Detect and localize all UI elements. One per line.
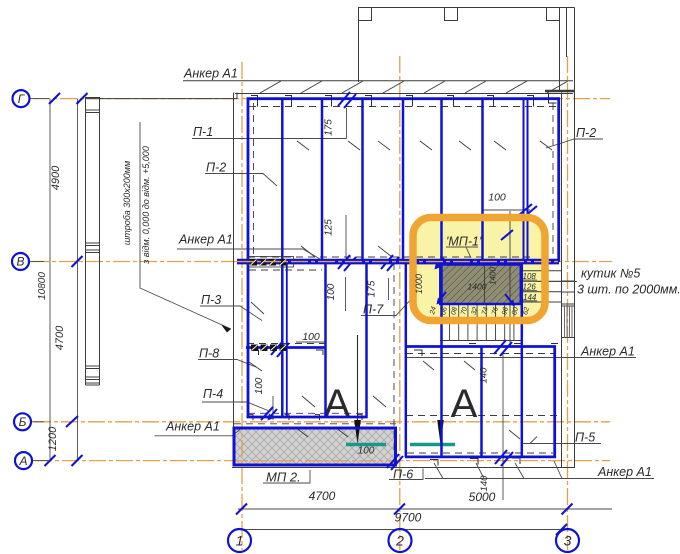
arrow top-left [436,258,444,267]
teal level mark left [346,443,386,446]
dim line 4900/4700/1200 [77,99,79,461]
svg-text:3: 3 [564,532,572,548]
P-2 underline + leader [205,174,277,187]
axis B horizontal [34,421,610,423]
circle B [14,413,31,430]
dashed below right-mid beam [406,353,555,355]
tick bottom dim line2 [556,524,567,535]
ext line right [502,352,504,500]
arrow B beam slash [269,409,277,418]
circle G [13,90,30,107]
joist 3 bottom [324,261,327,418]
arrow bottom-right [505,294,513,304]
axis 2 vertical [399,56,401,550]
left wall inner [99,98,101,386]
mid leader verticals [345,277,347,311]
right-mid beam [405,345,556,348]
MP2 slab fill [234,428,397,466]
highlight yellow fill [414,219,544,320]
anchor rb diag ticks [434,461,562,479]
svg-text:4900: 4900 [50,165,62,190]
svg-text:126: 126 [523,283,537,292]
svg-text:4700: 4700 [309,489,336,503]
B axis beam left [247,416,368,419]
anchor square symbols at mid-left beam [251,345,287,352]
dashed above MP2 [234,423,396,425]
svg-text:П-1: П-1 [193,125,213,139]
joist 8 double a [523,98,525,264]
joist 2 [281,98,284,418]
strip diagonal marks [260,81,568,93]
right wall inner face [561,93,563,468]
top beam G [247,97,561,100]
ticks bottom dim line1 [236,504,573,515]
wall junction thick [545,90,575,92]
svg-text:A: A [451,382,478,426]
terrace right wall lines [559,8,561,92]
svg-text:10800: 10800 [37,272,48,300]
dashed vertical corridor [393,263,395,455]
P-8 underline + leader [198,360,256,368]
V axis beam [237,259,559,265]
joist 6 stair left rail [440,98,443,457]
svg-text:Анкер А1: Анкер А1 [178,233,233,247]
P-2 right underline + leader [546,139,603,148]
P-6 box [389,469,423,480]
P-1 underline [192,138,347,140]
svg-text:9700: 9700 [395,511,422,525]
tick dim V line2 [72,256,83,267]
right edge beam bottom [553,346,556,459]
svg-text:1: 1 [236,532,244,548]
100 upper-right dim line [483,209,530,211]
section line left [357,335,359,420]
dim line 10800 [49,99,51,461]
dashed right section above bottom [406,415,558,417]
mid-left beam [246,346,326,349]
break slash MP2 corner [387,454,403,470]
100 mid underline [296,341,326,343]
shtroba shelf + leader [140,122,231,329]
svg-text:Б: Б [19,415,27,429]
break slash pairs V beam [338,255,399,271]
svg-text:Анкер А1: Анкер А1 [597,465,652,479]
break slash pair right-mid beam [494,340,512,356]
blue corner arrows at stair opening [268,258,516,421]
svg-text:175: 175 [367,280,378,297]
svg-text:100: 100 [358,446,375,457]
section arrow right [437,420,444,444]
hooks right-bottom beam [430,458,520,466]
circle V [12,253,29,270]
svg-text:П-3: П-3 [201,293,221,307]
dashed above V beam [248,256,530,258]
left wall outer [85,98,87,386]
stair number underlines [522,280,537,301]
tick dim B line2 [66,416,78,427]
kutik leader [537,281,577,283]
svg-text:2: 2 [395,532,404,548]
MP2 border [234,428,396,465]
hooks right-mid beam [414,344,558,357]
svg-text:Анкер А1: Анкер А1 [580,345,635,359]
dimension numbers [302,192,506,525]
joist 8 bottom [521,346,524,457]
bottom dim line 2 [238,529,570,531]
circle 1 [228,529,251,552]
125 leader vertical [345,215,347,259]
P-4 underline + leader [202,402,268,411]
corridor right wall beam [405,261,408,457]
left wall top cap [85,97,100,99]
break slash pair right-bottom beam [495,450,513,466]
svg-text:1400: 1400 [489,267,498,285]
circle 3 [556,529,579,552]
joist 3 top [321,98,324,261]
terrace tab right [547,8,560,21]
connector A circle [33,460,48,462]
joist 8 double b [527,98,529,261]
svg-text:100: 100 [302,331,320,343]
svg-text:144: 144 [523,293,537,302]
joist 5 corridor [402,98,405,261]
svg-text:1400: 1400 [468,282,487,292]
svg-text:кутик №5: кутик №5 [581,267,640,281]
stair opening border [440,265,521,305]
connector V circle [30,261,44,263]
right wall column detail [562,306,576,338]
joist 1 top [247,98,250,418]
P-5 leader [521,437,601,444]
dashed above right bottom beam [407,452,553,454]
anchor2 underline + leader [177,249,325,262]
svg-text:П-2: П-2 [206,161,226,175]
svg-text:П-7: П-7 [363,303,384,317]
terrace tab mid [445,8,458,21]
stair tread numbers rotated [429,306,531,316]
top wall strip lower line [235,93,573,95]
svg-text:МП 2.: МП 2. [266,470,301,485]
P-3 underline + leader [200,306,262,321]
svg-text:175: 175 [324,119,335,136]
top wall strip upper line / anchor leader [183,80,573,82]
dashed below top beam [249,106,558,108]
svg-text:1000: 1000 [414,274,424,294]
stair bottom rail [440,340,523,342]
hooks at top beam [251,93,557,107]
stair opening MP-1 fill [441,266,520,304]
svg-text:з відм. 0,000 до відм. +5,000: з відм. 0,000 до відм. +5,000 [141,146,151,265]
anchor square symbols at V beam [248,257,294,268]
dashed above B beam [248,412,366,414]
connector G circle [30,98,49,100]
joist 7 bottom [480,346,483,457]
section arrow left [354,420,361,444]
floor slab left edge [233,93,235,428]
tick dim G line1 [49,93,88,104]
break slash pair mid-left beam [271,341,289,357]
shtroba arrowhead [221,325,231,333]
joist 4 [361,98,364,261]
rotated dimension numbers [37,119,498,492]
stair step numbers 108 126 144 [523,272,537,302]
hooks at B beam [249,415,363,421]
anchor right-mid leader [406,357,636,359]
top wall line along axis G [85,98,237,100]
svg-text:140: 140 [479,475,490,492]
MP2 label box [263,470,310,483]
svg-text:100: 100 [326,283,337,300]
svg-text:125: 125 [324,219,335,236]
hidden beam lines through stair [484,265,486,305]
svg-text:140: 140 [479,367,490,384]
svg-text:П-2: П-2 [576,126,596,140]
svg-text:В: В [16,255,24,269]
anchor3 underline + leader [155,427,244,436]
svg-text:1200: 1200 [47,426,59,451]
axis A horizontal [35,460,610,462]
svg-text:A: A [324,382,351,426]
break slash B beam [261,407,273,420]
left wall rungs [86,110,100,385]
axis 3 vertical [567,56,569,550]
svg-text:4700: 4700 [54,325,66,350]
right wall landing ticks [562,281,576,304]
joist 7 [481,98,484,264]
stair treads [450,305,514,341]
building bottom line [232,467,575,469]
circle letters [16,92,571,549]
joist 2b double [286,261,288,418]
svg-text:100: 100 [254,377,265,394]
svg-text:108: 108 [523,272,537,281]
175 leader vertical [346,108,348,139]
stair step box lines [522,271,562,302]
terrace tab left [359,8,372,21]
circle A [15,452,32,469]
svg-text:'МП-1': 'МП-1' [446,235,482,249]
teal level mark right [410,443,455,446]
svg-text:3 шт. по 2000мм.: 3 шт. по 2000мм. [577,283,680,297]
svg-text:А: А [18,454,27,468]
svg-text:П-6: П-6 [393,468,413,482]
svg-text:100: 100 [488,192,506,204]
axis 1 vertical [241,62,243,550]
dashed vertical right of first beam [253,103,255,257]
upper terrace outline [359,8,575,83]
break slash pair top beam [338,92,356,108]
axis V overlay on beam [237,261,559,263]
axis G horizontal [33,98,610,100]
right edge beam top [557,98,560,263]
tick dim A lines [45,455,83,466]
dashed below V beam left room [249,269,322,271]
svg-text:П-8: П-8 [199,347,219,361]
dashed above mid-left beam [247,343,325,345]
right-bottom beam [405,455,556,458]
slash upper 100 dim [519,204,537,217]
stair right rail [521,261,524,346]
anchor right-bottom leader [425,478,654,480]
arrow bottom-left [438,292,446,302]
svg-text:Анкер А1: Анкер А1 [183,67,238,81]
MP-1 underline + leader [446,247,478,258]
hooks mid-left beam [252,350,324,355]
svg-text:П-5: П-5 [575,431,595,445]
axis V horizontal [32,261,612,263]
slash on stair top right [501,230,513,240]
svg-text:штроба 300х200мм: штроба 300х200мм [122,161,132,245]
connector B circle [32,421,44,423]
circle 2 [389,529,412,552]
svg-text:Анкер А1: Анкер А1 [165,420,220,434]
svg-text:П-4: П-4 [203,387,223,401]
ext line at B beam [272,396,274,420]
P-7 underline + leader [361,296,414,316]
joist 4 bottom [365,261,368,418]
shtroba rotated note [122,146,151,265]
bottom dim line 1 [238,508,612,510]
dashed vertical left of right beam [552,103,554,257]
